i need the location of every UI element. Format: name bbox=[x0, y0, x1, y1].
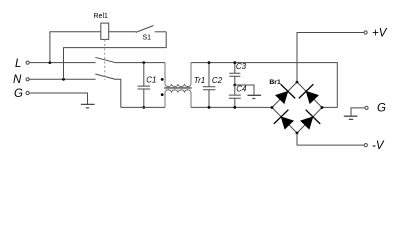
svg-text:Rel1: Rel1 bbox=[94, 13, 109, 20]
svg-text:Tr1: Tr1 bbox=[194, 76, 205, 85]
node bridge left vertex bbox=[271, 106, 274, 109]
ground symbol input earth bbox=[81, 104, 95, 108]
diode D upper-left bbox=[276, 84, 296, 103]
relay actuation dashed link bbox=[104, 39, 106, 80]
node C2 top bbox=[208, 61, 211, 64]
relay Rel1 coil bbox=[101, 23, 109, 39]
svg-text:C4: C4 bbox=[236, 85, 247, 94]
choke Tr1 primary winding bbox=[165, 63, 191, 87]
bridge Br1 diamond bbox=[272, 82, 322, 133]
wire G output to earth bbox=[351, 108, 365, 116]
terminal G input bbox=[26, 91, 29, 94]
capacitor C2 bbox=[203, 63, 215, 108]
capacitor C1 bbox=[138, 63, 151, 108]
wire bottom rail right bbox=[191, 106, 272, 108]
diode D lower-left bbox=[274, 110, 294, 129]
svg-text:Br1: Br1 bbox=[269, 79, 281, 86]
diode D upper-right bbox=[299, 84, 319, 103]
wire bottom rail left bbox=[121, 106, 165, 108]
terminal N bbox=[26, 78, 29, 81]
node L-C1 junction bbox=[142, 61, 145, 64]
wire G input bbox=[29, 93, 87, 104]
ground symbol output earth bbox=[344, 116, 358, 119]
node Tr1 phase dot bottom bbox=[161, 93, 164, 96]
capacitor C3 bbox=[229, 63, 240, 85]
node Tr1 phase dot top bbox=[161, 78, 164, 81]
svg-text:G: G bbox=[377, 103, 386, 115]
choke Tr1 secondary winding bbox=[165, 90, 191, 108]
node C2 bottom bbox=[208, 106, 211, 109]
svg-text:N: N bbox=[13, 74, 22, 86]
wire L after contact bbox=[116, 62, 165, 64]
wire N after contact bbox=[116, 79, 121, 107]
terminal -V bbox=[364, 144, 367, 147]
node C3 top bbox=[233, 61, 236, 64]
svg-text:L: L bbox=[15, 58, 21, 70]
terminal G output bbox=[365, 106, 368, 109]
svg-text:+V: +V bbox=[372, 27, 388, 39]
wire relay coil to S1 bbox=[109, 31, 137, 33]
svg-text:C2: C2 bbox=[212, 76, 223, 85]
svg-text:G: G bbox=[14, 88, 23, 100]
terminal +V bbox=[364, 31, 367, 34]
node N-S1 return tap bbox=[62, 78, 65, 81]
wire S1 return to N bbox=[64, 32, 167, 80]
wire top rail bbox=[191, 63, 337, 108]
wire L input bbox=[29, 62, 95, 64]
switch S1 blade bbox=[136, 26, 154, 33]
svg-text:C3: C3 bbox=[236, 62, 247, 71]
terminal L bbox=[26, 61, 29, 64]
svg-text:C1: C1 bbox=[146, 76, 156, 85]
ground symbol C3-C4 earth bbox=[247, 95, 261, 98]
wire S1 fixed contact bbox=[155, 31, 167, 33]
diode D lower-right bbox=[301, 110, 321, 129]
wire N input bbox=[29, 78, 95, 80]
relay contact blade on N bbox=[95, 74, 116, 80]
svg-text:-V: -V bbox=[372, 140, 385, 152]
node C3-C4 midpoint bbox=[233, 84, 236, 87]
node C1 bottom junction bbox=[142, 106, 145, 109]
node C4 bottom bbox=[233, 106, 236, 109]
choke Tr1 core bbox=[164, 88, 191, 89]
node L-relay tap bbox=[49, 61, 52, 64]
node bridge bottom vertex bbox=[296, 132, 299, 135]
capacitor C4 bbox=[229, 85, 241, 107]
node bridge right vertex bbox=[321, 106, 324, 109]
wire midpoint earth tap bbox=[235, 85, 254, 95]
wire bridge plus riser bbox=[297, 33, 364, 83]
wire bridge minus drop bbox=[297, 133, 364, 145]
relay contact blade on L bbox=[95, 57, 116, 63]
svg-text:S1: S1 bbox=[143, 35, 152, 42]
wire relay coil feed from L bbox=[50, 32, 101, 63]
node bridge top vertex bbox=[296, 81, 299, 84]
